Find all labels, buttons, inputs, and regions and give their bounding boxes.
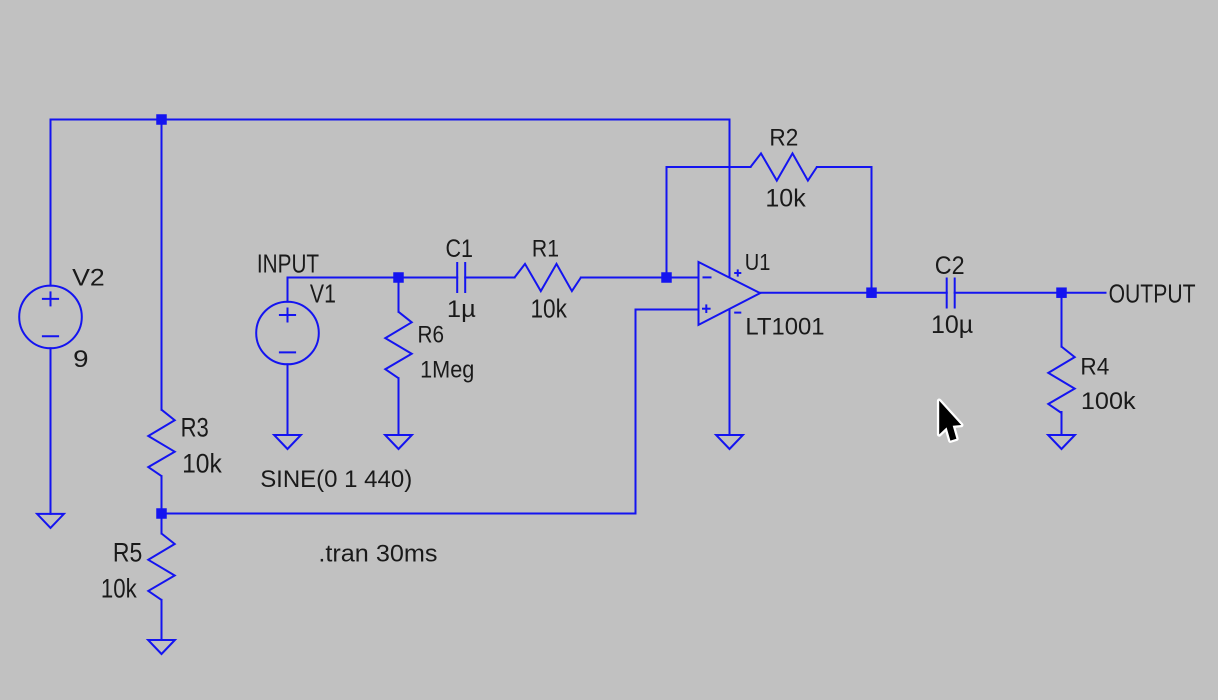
svg-text:1Meg: 1Meg	[420, 357, 474, 384]
wire V+ supply vertical	[729, 120, 731, 278]
resistor R4	[1048, 347, 1074, 413]
node INPUT / R6	[393, 272, 404, 283]
node R3 / R5 / bottom wire	[156, 508, 167, 519]
wire V2 bottom to ground	[50, 348, 52, 514]
voltage source V2	[19, 286, 82, 349]
resistor R6	[385, 312, 411, 378]
node top rail / R3	[156, 114, 167, 125]
svg-text:C1: C1	[446, 235, 474, 263]
svg-text:R1: R1	[532, 235, 559, 262]
resistor R5	[148, 534, 174, 600]
wire bottom long	[162, 513, 636, 515]
svg-text:R4: R4	[1080, 354, 1109, 381]
svg-text:V2: V2	[72, 264, 105, 291]
svg-text:R6: R6	[418, 321, 445, 348]
svg-text:INPUT: INPUT	[257, 251, 319, 279]
wire C2 to OUTPUT	[955, 292, 1106, 294]
op-amp U1	[699, 262, 761, 325]
svg-text:LT1001: LT1001	[745, 314, 824, 341]
capacitor C1	[457, 262, 465, 293]
resistor R2	[751, 153, 817, 180]
wire feedback vertical	[666, 167, 668, 278]
svg-text:10k: 10k	[101, 573, 137, 603]
wire R4 top lead	[1061, 293, 1063, 347]
ground op-amp V-	[716, 435, 743, 449]
capacitor C2	[947, 278, 955, 309]
wire R2 right vertical	[871, 167, 873, 293]
svg-text:10k: 10k	[182, 449, 222, 479]
wire R2 right lead	[817, 166, 872, 168]
wire R6 top lead	[398, 278, 400, 312]
ground R4	[1048, 435, 1075, 449]
node output / R2	[866, 287, 877, 298]
wire top rail horizontal	[51, 119, 730, 121]
wire R6 bottom lead	[398, 378, 400, 435]
wire R3 rail upper	[161, 120, 163, 410]
wire V- supply to ground	[729, 310, 731, 435]
wire V1 bottom lead	[287, 364, 289, 435]
wire R1 to op-amp minus	[581, 277, 699, 279]
ground V2	[37, 514, 64, 528]
mouse cursor	[939, 401, 961, 441]
svg-text:R5: R5	[113, 537, 142, 567]
ground V1	[274, 435, 301, 449]
svg-text:10k: 10k	[531, 296, 568, 324]
svg-text:R3: R3	[181, 412, 209, 442]
wire R5 bottom lead	[161, 600, 163, 640]
voltage source V1	[256, 302, 319, 365]
wire INPUT to C1	[288, 277, 458, 279]
svg-text:SINE(0 1 440): SINE(0 1 440)	[260, 466, 412, 493]
wire R3 to bottom junction	[161, 476, 163, 513]
wire feedback horizontal to R2	[667, 166, 751, 168]
wire R4 bottom lead	[1061, 412, 1063, 435]
resistor R3	[148, 410, 174, 476]
svg-text:C2: C2	[935, 252, 965, 280]
node output / R4	[1056, 287, 1067, 298]
svg-text:U1: U1	[745, 249, 771, 275]
resistor R1	[515, 264, 581, 291]
svg-text:9: 9	[73, 346, 88, 373]
ground R6	[385, 435, 412, 449]
wire plus input horizontal	[636, 309, 699, 311]
svg-text:10µ: 10µ	[931, 311, 973, 339]
wire plus input vertical	[635, 310, 637, 514]
node minus input / feedback	[661, 272, 672, 283]
wire R5 top lead	[161, 514, 163, 534]
wire left rail upper (V2 top)	[50, 120, 52, 286]
svg-text:V1: V1	[310, 281, 336, 309]
wire V1 top lead	[287, 278, 289, 302]
svg-text:100k: 100k	[1081, 388, 1136, 415]
svg-text:10k: 10k	[765, 184, 806, 212]
wire op-amp output to C2	[760, 292, 947, 294]
wire C1 to R1	[465, 277, 514, 279]
svg-text:OUTPUT: OUTPUT	[1109, 280, 1196, 308]
svg-text:R2: R2	[769, 125, 798, 152]
svg-text:.tran 30ms: .tran 30ms	[318, 541, 437, 568]
ground R5	[148, 640, 175, 654]
svg-text:1µ: 1µ	[447, 296, 476, 323]
